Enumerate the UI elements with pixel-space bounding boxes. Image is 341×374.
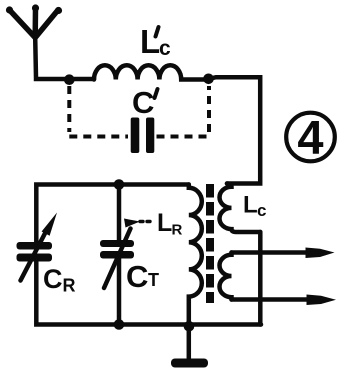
wire antenna lead	[35, 38, 94, 79]
node junction A	[64, 74, 75, 85]
svg-text:4: 4	[297, 111, 323, 164]
svg-text:c: c	[257, 201, 266, 220]
wire tank bottom	[36, 262, 261, 325]
transformer winding L_C top	[220, 184, 261, 232]
svg-text:c: c	[159, 37, 171, 60]
wire tank top	[36, 185, 189, 243]
inductor L'C	[94, 65, 204, 79]
wire top-right	[206, 77, 260, 183]
node junction ground	[184, 321, 195, 332]
wire right vertical	[258, 232, 263, 325]
svg-text:T: T	[148, 270, 159, 290]
output arrow 1	[232, 248, 335, 259]
antenna	[6, 4, 62, 37]
wire dashed right branch	[157, 86, 210, 137]
circled numeral 4	[286, 111, 335, 164]
capacitor C_T	[100, 219, 140, 289]
wire C_T branch	[117, 185, 122, 325]
label C_T	[126, 259, 159, 294]
capacitor C_R	[17, 213, 58, 281]
transformer core	[206, 184, 214, 303]
label L_R	[157, 209, 183, 239]
label C_R	[43, 264, 76, 296]
node junction bottom C_T	[114, 319, 125, 330]
label dashes before L_R	[140, 220, 150, 223]
wire dashed left branch	[69, 86, 128, 137]
svg-text:R: R	[63, 276, 76, 296]
svg-text:C: C	[132, 85, 154, 120]
svg-text:L: L	[157, 209, 172, 237]
svg-text:C: C	[126, 259, 148, 294]
svg-text:C: C	[43, 264, 63, 294]
transformer winding L_C bottom	[219, 253, 231, 300]
inductor L_R winding	[189, 185, 202, 327]
svg-text:R: R	[172, 222, 183, 239]
node junction B	[203, 74, 214, 85]
label L'C	[140, 23, 171, 60]
ground	[171, 326, 208, 368]
label L_C	[243, 192, 266, 221]
output arrow 2	[232, 295, 337, 306]
label C'	[132, 85, 158, 120]
svg-text:L: L	[243, 192, 258, 219]
node junction top C_T	[114, 179, 125, 190]
capacitor C'	[131, 118, 155, 154]
